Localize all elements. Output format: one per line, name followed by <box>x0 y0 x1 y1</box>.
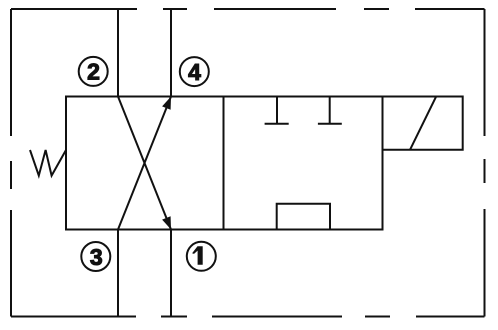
flow path 2 to 1 <box>118 97 171 230</box>
pilot check T1 <box>265 97 289 124</box>
orifice box <box>277 204 330 230</box>
flow path 3 to 4 <box>118 97 171 230</box>
wire port 2 stem <box>117 9 119 97</box>
wire port 3 stem <box>117 230 119 317</box>
svg-text:3: 3 <box>90 244 103 270</box>
dashed envelope top edge <box>11 8 485 10</box>
port label 4 <box>180 57 209 86</box>
wire port 4 stem <box>170 9 172 97</box>
valve body outline <box>66 97 383 230</box>
pilot check T2 <box>318 97 342 124</box>
arrowhead at port 4 <box>162 97 171 110</box>
dashed envelope bottom edge <box>11 316 485 318</box>
port label 1 <box>187 242 216 271</box>
solenoid box <box>383 97 463 150</box>
arrowhead at port 1 <box>162 216 171 229</box>
dashed envelope left edge <box>10 9 12 317</box>
svg-text:2: 2 <box>87 59 100 85</box>
spring <box>30 150 66 176</box>
solenoid diagonal <box>410 97 436 150</box>
port label 3 <box>81 242 110 271</box>
svg-text:4: 4 <box>188 59 201 85</box>
divider between arrow cell and pilot cell <box>223 97 225 230</box>
dashed envelope right edge <box>484 9 486 317</box>
port label 2 <box>79 57 108 86</box>
wire port 1 stem <box>170 230 172 317</box>
